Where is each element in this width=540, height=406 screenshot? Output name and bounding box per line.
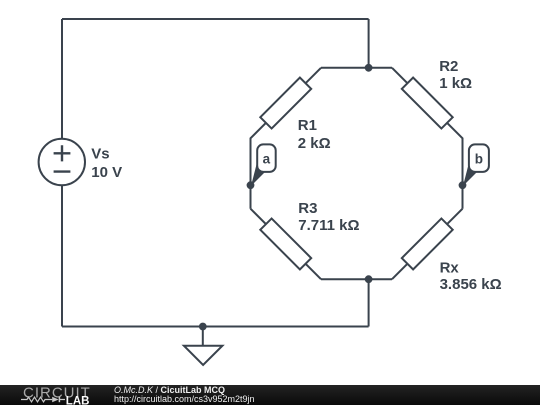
wire diagonal R2 branch (top node to node b) <box>392 68 463 209</box>
resistor Rx body <box>402 218 453 269</box>
wire left rail upper (Vs+ to top-left corner) <box>61 19 63 139</box>
node top junction dot <box>365 64 373 72</box>
voltage source plus sign <box>54 145 71 161</box>
wire drop from top rail to bridge top node <box>368 19 370 68</box>
ground symbol triangle <box>184 346 223 365</box>
node a flag bubble <box>257 144 276 172</box>
wire bridge top side <box>321 67 392 69</box>
node b flag bubble <box>469 144 489 172</box>
node a flag tail <box>251 165 266 187</box>
voltage source minus sign <box>54 170 71 172</box>
footer url line <box>114 395 255 404</box>
svg-text:Rx: Rx <box>440 260 460 277</box>
node b junction dot <box>459 181 467 189</box>
footer bar <box>0 385 540 406</box>
wire bridge bottom side <box>321 278 392 280</box>
wire top rail <box>62 18 369 20</box>
svg-text:2 kΩ: 2 kΩ <box>298 135 331 152</box>
wire bottom rail <box>62 326 369 328</box>
node b flag tail <box>463 165 478 187</box>
CircuitLab logo wordmark <box>0 385 100 406</box>
svg-text:1 kΩ: 1 kΩ <box>439 75 472 92</box>
svg-text:R3: R3 <box>298 200 317 217</box>
footer author line <box>114 386 225 395</box>
svg-text:R2: R2 <box>439 58 458 75</box>
node bottom junction dot <box>365 275 373 283</box>
svg-text:10 V: 10 V <box>91 164 122 181</box>
wire diagonal Rx branch (node b to bottom node) <box>392 209 463 280</box>
svg-text:7.711 kΩ: 7.711 kΩ <box>298 217 359 234</box>
voltage source Vs circle <box>39 139 85 185</box>
svg-text:3.856 kΩ: 3.856 kΩ <box>440 276 502 293</box>
node a junction dot <box>247 181 255 189</box>
svg-text:b: b <box>475 152 483 167</box>
resistor R1 body <box>260 78 311 129</box>
wire diagonal R1 branch (top node to node a) <box>251 68 322 209</box>
logo resistor zigzag and diode <box>21 397 65 402</box>
svg-text:Vs: Vs <box>91 145 109 162</box>
svg-text:a: a <box>263 152 271 167</box>
svg-text:LAB: LAB <box>66 395 90 406</box>
resistor R3 body <box>260 218 311 269</box>
wire diagonal R3 branch (node a to bottom node) <box>251 209 322 280</box>
resistor R2 body <box>402 78 453 129</box>
wire left rail lower (Vs- to bottom-left corner) <box>61 185 63 327</box>
wire bridge bottom node to bottom rail <box>368 279 370 326</box>
node ground junction dot <box>199 323 207 331</box>
ground stub wire <box>202 327 204 346</box>
svg-text:R1: R1 <box>298 117 317 134</box>
